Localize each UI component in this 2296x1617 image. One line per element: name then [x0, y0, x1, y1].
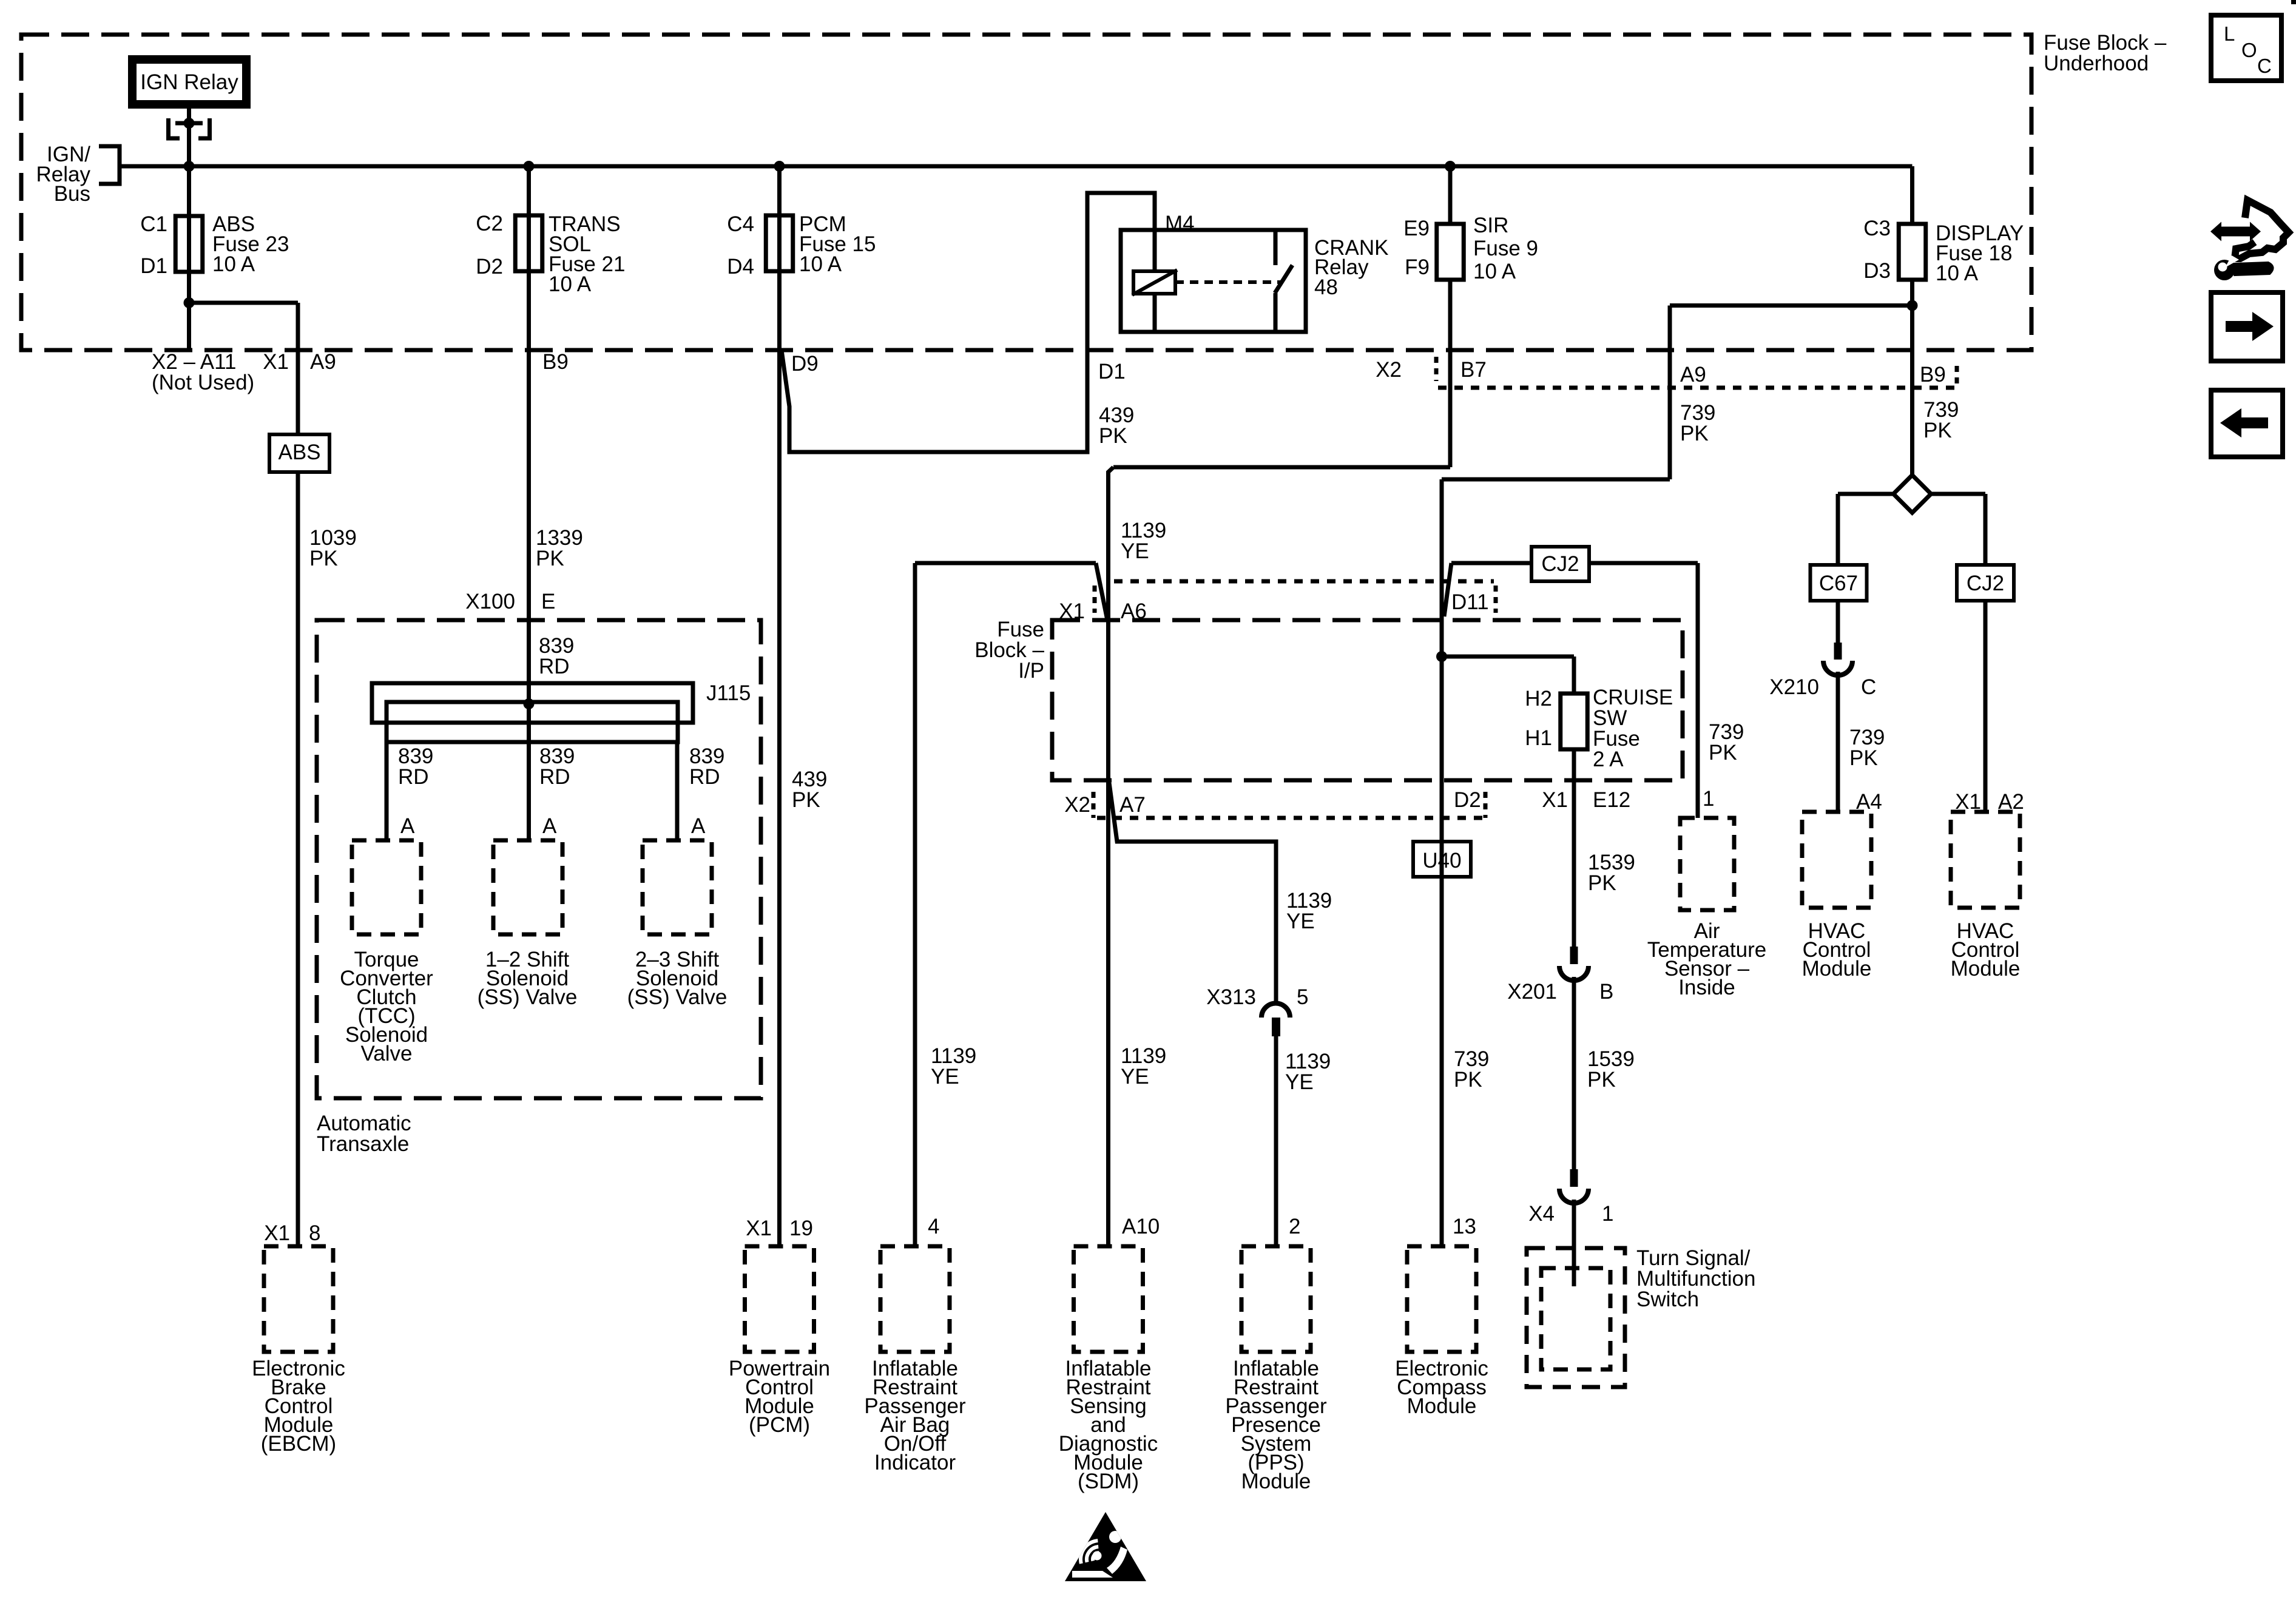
svg-text:H1: H1 [1525, 726, 1552, 750]
svg-text:YE: YE [1285, 1070, 1314, 1094]
svg-text:YE: YE [1286, 910, 1315, 933]
svg-text:J115: J115 [706, 681, 751, 705]
svg-text:2: 2 [1289, 1215, 1300, 1238]
svg-text:4: 4 [928, 1215, 939, 1238]
svg-text:RD: RD [398, 765, 429, 789]
svg-text:A: A [691, 814, 706, 838]
svg-text:PK: PK [309, 547, 338, 570]
svg-text:10 A: 10 A [1936, 262, 1979, 285]
svg-text:C: C [1861, 675, 1876, 699]
svg-text:X2: X2 [1376, 358, 1402, 382]
svg-text:B: B [1599, 980, 1613, 1004]
svg-text:PK: PK [1099, 424, 1127, 448]
svg-text:IGN Relay: IGN Relay [140, 70, 238, 94]
svg-text:X313: X313 [1206, 985, 1256, 1009]
svg-text:(EBCM): (EBCM) [261, 1432, 336, 1456]
svg-text:H2: H2 [1525, 687, 1552, 711]
svg-text:C: C [2257, 55, 2272, 77]
svg-text:D3: D3 [1863, 259, 1891, 283]
svg-text:(Not Used): (Not Used) [152, 371, 254, 394]
svg-text:C4: C4 [727, 212, 754, 236]
svg-text:(SS) Valve: (SS) Valve [478, 985, 578, 1009]
svg-text:48: 48 [1314, 275, 1338, 299]
svg-text:D1: D1 [140, 254, 167, 278]
svg-text:D1: D1 [1098, 360, 1126, 383]
svg-text:C67: C67 [1819, 572, 1858, 595]
svg-text:(SDM): (SDM) [1078, 1470, 1139, 1493]
svg-text:PK: PK [536, 547, 564, 570]
svg-text:RD: RD [539, 765, 570, 789]
svg-text:I/P: I/P [1018, 659, 1044, 683]
svg-text:D9: D9 [791, 352, 819, 376]
svg-text:5: 5 [1297, 985, 1308, 1009]
svg-text:D2: D2 [476, 255, 503, 279]
svg-text:C1: C1 [140, 212, 167, 236]
svg-text:A: A [542, 814, 557, 838]
svg-text:Module: Module [1241, 1470, 1311, 1493]
svg-text:D4: D4 [727, 255, 754, 279]
svg-text:A10: A10 [1122, 1215, 1160, 1238]
svg-text:B7: B7 [1460, 358, 1487, 382]
svg-text:8: 8 [309, 1221, 320, 1245]
svg-text:A: A [400, 814, 415, 838]
svg-text:CJ2: CJ2 [1967, 572, 2004, 595]
svg-text:A9: A9 [1680, 363, 1706, 387]
svg-text:YE: YE [931, 1065, 959, 1089]
svg-text:Module: Module [1802, 957, 1872, 981]
svg-text:X1: X1 [1542, 788, 1568, 812]
svg-text:Transaxle: Transaxle [317, 1132, 409, 1156]
svg-text:X2: X2 [1064, 793, 1090, 817]
svg-text:C2: C2 [476, 212, 503, 235]
svg-text:O: O [2241, 39, 2257, 61]
svg-text:Valve: Valve [361, 1042, 413, 1065]
svg-text:PK: PK [1588, 871, 1616, 895]
svg-text:PK: PK [1849, 746, 1878, 770]
svg-text:ABS: ABS [278, 441, 320, 464]
svg-text:RD: RD [539, 655, 570, 678]
svg-text:E12: E12 [1593, 788, 1630, 812]
svg-text:10 A: 10 A [1473, 260, 1516, 283]
svg-text:YE: YE [1121, 539, 1149, 563]
svg-text:2 A: 2 A [1593, 748, 1624, 771]
svg-text:(PCM): (PCM) [749, 1413, 810, 1437]
svg-text:X210: X210 [1769, 675, 1819, 699]
svg-text:D11: D11 [1451, 590, 1489, 614]
svg-text:Inside: Inside [1678, 976, 1735, 999]
svg-text:X1: X1 [264, 1221, 290, 1245]
svg-text:Switch: Switch [1636, 1288, 1699, 1311]
svg-text:SIR: SIR [1473, 214, 1508, 237]
svg-text:CJ2: CJ2 [1541, 552, 1579, 576]
svg-text:Indicator: Indicator [874, 1451, 956, 1474]
svg-text:PK: PK [1587, 1068, 1616, 1092]
svg-text:A9: A9 [310, 350, 336, 374]
svg-text:M4: M4 [1165, 212, 1195, 235]
svg-text:U40: U40 [1422, 849, 1461, 873]
svg-text:Module: Module [1951, 957, 2021, 981]
svg-text:RD: RD [689, 765, 720, 789]
svg-text:B9: B9 [542, 350, 569, 374]
svg-text:13: 13 [1453, 1215, 1476, 1238]
svg-text:L: L [2224, 22, 2235, 45]
svg-text:X1: X1 [746, 1217, 772, 1240]
svg-text:X1: X1 [263, 350, 289, 374]
svg-text:10 A: 10 A [799, 252, 842, 276]
svg-text:D2: D2 [1454, 788, 1481, 812]
svg-text:PK: PK [1454, 1068, 1482, 1092]
svg-text:Bus: Bus [54, 182, 90, 206]
svg-text:PK: PK [792, 788, 820, 812]
svg-text:Underhood: Underhood [2044, 52, 2149, 75]
svg-text:B9: B9 [1920, 363, 1946, 387]
svg-text:10 A: 10 A [549, 272, 592, 296]
svg-text:YE: YE [1121, 1065, 1149, 1089]
svg-text:A7: A7 [1119, 793, 1146, 817]
svg-text:PK: PK [1923, 419, 1952, 442]
svg-text:1: 1 [1602, 1202, 1613, 1226]
svg-text:X4: X4 [1528, 1202, 1555, 1226]
svg-text:PK: PK [1680, 422, 1709, 445]
svg-text:X100: X100 [465, 590, 515, 613]
svg-text:Module: Module [1407, 1394, 1477, 1418]
svg-text:E9: E9 [1403, 217, 1430, 240]
svg-text:Fuse 9: Fuse 9 [1473, 237, 1538, 260]
svg-text:PK: PK [1709, 741, 1737, 765]
svg-text:F9: F9 [1405, 255, 1430, 279]
svg-text:1: 1 [1703, 787, 1714, 811]
svg-text:E: E [541, 590, 555, 613]
svg-text:(SS) Valve: (SS) Valve [627, 985, 728, 1009]
svg-text:10 A: 10 A [212, 252, 255, 276]
svg-text:C3: C3 [1863, 217, 1891, 240]
svg-text:X201: X201 [1507, 980, 1557, 1004]
svg-text:19: 19 [789, 1217, 813, 1240]
